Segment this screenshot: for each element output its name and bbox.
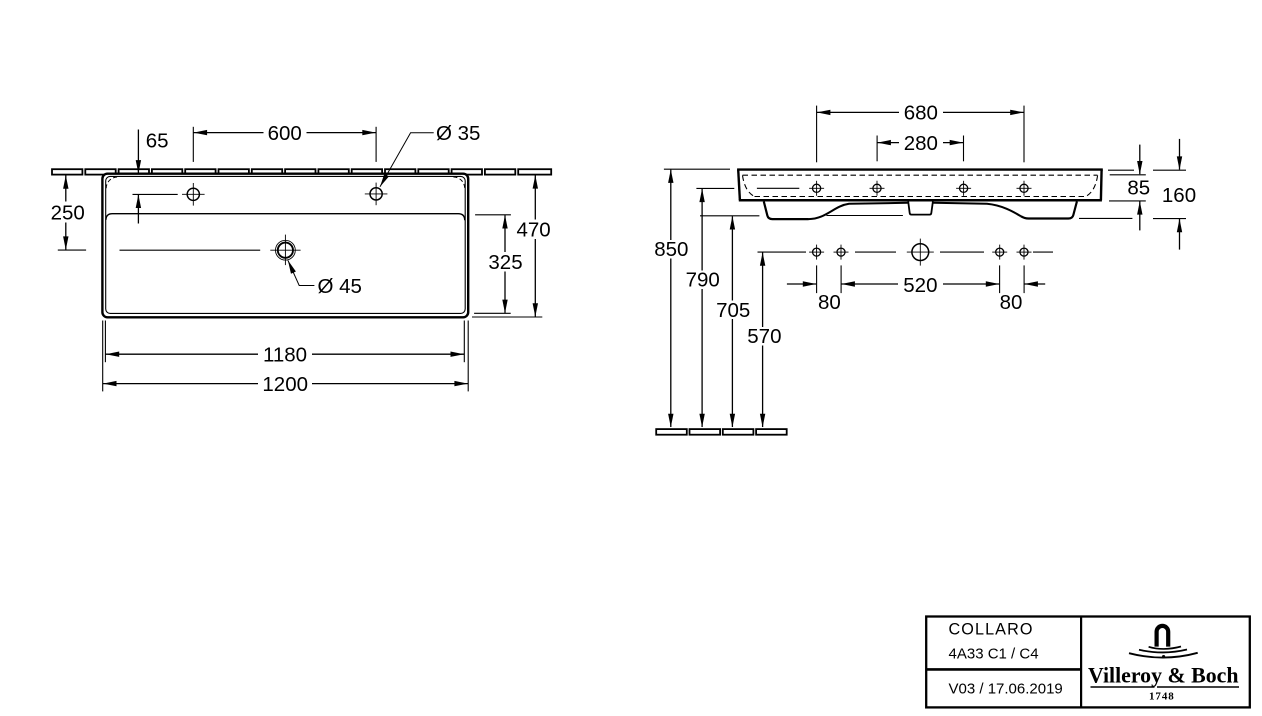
dimension 705 bbox=[700, 216, 903, 428]
drain centerline stub outside basin bbox=[58, 249, 86, 251]
svg-text:600: 600 bbox=[268, 122, 302, 145]
faucet hole right (Ø35) bbox=[365, 183, 388, 206]
centerline stub at left faucet hole bbox=[133, 193, 178, 195]
svg-text:790: 790 bbox=[686, 269, 720, 292]
bowl rear edge bbox=[106, 214, 465, 221]
svg-text:1748: 1748 bbox=[1149, 690, 1177, 702]
svg-text:85: 85 bbox=[1127, 177, 1150, 200]
faucet hole left (Ø35) bbox=[182, 183, 205, 206]
svg-text:250: 250 bbox=[51, 202, 85, 225]
svg-text:680: 680 bbox=[904, 102, 938, 125]
wall holes centerline bbox=[758, 251, 1054, 253]
hidden corner arc top-right bbox=[453, 177, 464, 188]
dimension 570 bbox=[747, 252, 781, 427]
logo wordmark underline bbox=[1091, 686, 1155, 688]
svg-text:COLLARO: COLLARO bbox=[949, 621, 1034, 639]
dimension 790 bbox=[686, 188, 735, 427]
svg-text:280: 280 bbox=[904, 132, 938, 155]
logo ripple dot bbox=[1162, 655, 1165, 658]
svg-text:325: 325 bbox=[488, 251, 522, 274]
underside sweep left bbox=[809, 203, 908, 219]
svg-text:4A33 C1 / C4: 4A33 C1 / C4 bbox=[949, 646, 1039, 663]
svg-text:470: 470 bbox=[516, 218, 550, 241]
label Ø35 leader bbox=[378, 122, 481, 188]
wall tile row bbox=[52, 169, 551, 174]
svg-text:80: 80 bbox=[1000, 291, 1023, 314]
drain box bbox=[908, 202, 933, 215]
floor tile row bbox=[656, 429, 786, 435]
hidden interior dashed outline bbox=[743, 175, 1098, 196]
svg-text:160: 160 bbox=[1162, 184, 1196, 207]
svg-text:570: 570 bbox=[747, 325, 781, 348]
svg-text:80: 80 bbox=[818, 291, 841, 314]
drain hole (Ø45) bbox=[270, 235, 300, 266]
svg-text:850: 850 bbox=[654, 238, 688, 261]
svg-text:1180: 1180 bbox=[263, 344, 307, 367]
svg-text:Ø 35: Ø 35 bbox=[436, 122, 480, 145]
dimension 600 bbox=[193, 122, 376, 162]
title block frame bbox=[926, 617, 1250, 708]
logo ripple middle bbox=[1139, 650, 1187, 653]
logo ripple small bbox=[1149, 647, 1181, 649]
wall mounting holes row bbox=[809, 239, 1031, 266]
dimension 520 with 80s bbox=[787, 265, 1045, 314]
hidden corner arc top-left bbox=[106, 177, 117, 188]
svg-text:1200: 1200 bbox=[262, 373, 308, 396]
title block vertical divider bbox=[1080, 617, 1082, 708]
dimension 1200 bbox=[103, 321, 469, 396]
logo ripple large bbox=[1129, 653, 1198, 658]
right mounting bracket bbox=[1021, 202, 1077, 219]
dimension 325 bbox=[474, 215, 523, 313]
body outline bbox=[737, 170, 1103, 201]
basin inner rim line bbox=[106, 176, 466, 313]
left mounting bracket bbox=[764, 202, 809, 220]
dimension 65 bbox=[136, 130, 169, 224]
title block row separator bbox=[926, 668, 1081, 671]
svg-text:520: 520 bbox=[903, 274, 937, 297]
label Ø45 leader bbox=[285, 259, 362, 298]
underside sweep right bbox=[933, 203, 1021, 216]
svg-text:Ø 45: Ø 45 bbox=[318, 275, 362, 298]
dimension 680 bbox=[817, 102, 1024, 163]
dimension 85 bbox=[1108, 145, 1150, 231]
svg-text:65: 65 bbox=[146, 130, 169, 153]
svg-text:Villeroy & Boch: Villeroy & Boch bbox=[1088, 662, 1239, 687]
drain centerline inside basin bbox=[120, 249, 261, 251]
dimension 280 bbox=[877, 132, 963, 161]
basin outer outline bbox=[102, 174, 468, 318]
dimension 470 bbox=[472, 175, 551, 317]
svg-text:V03 / 17.06.2019: V03 / 17.06.2019 bbox=[949, 681, 1063, 698]
dimension 160 bbox=[1079, 139, 1196, 250]
dimension 1180 bbox=[105, 321, 464, 367]
dimension 250 bbox=[51, 175, 85, 250]
dimension 850 bbox=[654, 169, 730, 427]
logo tap icon bbox=[1157, 626, 1169, 647]
faucet holes front view bbox=[809, 181, 1031, 196]
centerline stub left of faucet holes bbox=[757, 187, 799, 189]
svg-text:705: 705 bbox=[716, 299, 750, 322]
